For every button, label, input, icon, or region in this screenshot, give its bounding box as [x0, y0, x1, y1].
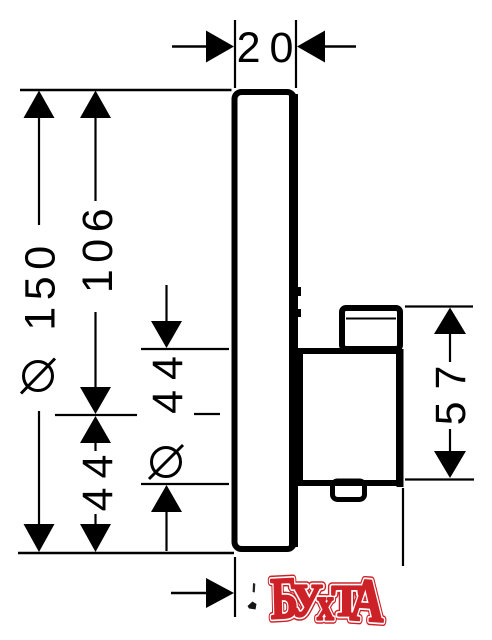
- tick at handle bottom: [141, 483, 229, 485]
- watermark red fill: [270, 565, 386, 636]
- handle centre line dash: [194, 413, 220, 415]
- watermark red outer stroke: [270, 565, 386, 636]
- top reference line y=90: [20, 89, 232, 91]
- dim 44 left line lower segment: [94, 514, 96, 527]
- svg-text:106: 106: [74, 202, 122, 293]
- tick at handle top: [141, 348, 229, 350]
- valve body outline: [300, 351, 399, 483]
- dim 150 line lower segment: [38, 411, 40, 527]
- dim 44 left line upper segment: [94, 441, 96, 451]
- hidden digit fragment upper: [253, 583, 256, 593]
- dim 57 top arrow: [434, 308, 466, 335]
- dim 44 middle diameter circle: [152, 448, 181, 477]
- dim 57 top extension line: [405, 305, 473, 307]
- dim 106 line lower segment: [94, 312, 96, 389]
- dim 44 middle bottom arrow: [151, 485, 182, 512]
- dim 20 right arrow: [297, 31, 325, 63]
- body bottom line over clip: [300, 481, 397, 486]
- dim 106 bottom arrow: [80, 387, 111, 414]
- watermark white halo: [257, 568, 393, 634]
- bottom extension line right (x=403): [402, 488, 404, 566]
- plate right edge notch upper: [296, 287, 301, 296]
- bottom extension line left (x=235): [234, 557, 236, 617]
- dim 20 left arrow: [206, 31, 234, 63]
- dim 44 middle diameter slash: [149, 445, 183, 479]
- bottom dim tail: [171, 592, 208, 594]
- svg-text:20: 20: [237, 24, 303, 72]
- extension line top left (x=235): [234, 20, 236, 88]
- dim 150 bottom arrow: [24, 524, 55, 552]
- dim 57 bottom arrow: [434, 451, 466, 478]
- dim 20 left tail: [172, 45, 208, 47]
- cap right edge extension down: [397, 349, 404, 487]
- handle cap outline: [342, 308, 400, 349]
- svg-text:44: 44: [144, 346, 192, 414]
- bottom reference line y=553: [18, 552, 234, 555]
- dim 44 left top arrow: [80, 416, 111, 443]
- dim 57 bottom extension line: [405, 478, 474, 480]
- dim 150 top arrow: [24, 91, 55, 119]
- dim 44 middle line bottom: [165, 510, 167, 551]
- dim 150 diameter circle: [24, 362, 53, 391]
- dim 106 line upper segment: [94, 116, 96, 201]
- dim 44 middle line top: [165, 285, 167, 324]
- dim 57 line upper segment: [449, 332, 451, 362]
- svg-text:150: 150: [17, 239, 65, 330]
- dim 150 line upper segment: [38, 116, 40, 225]
- plate right edge thickening: [289, 94, 298, 547]
- cover plate outline: [235, 92, 295, 549]
- dim 106 top arrow: [80, 91, 111, 119]
- dim 44 left bottom arrow: [80, 524, 111, 552]
- tick at 106/44 junction: [55, 414, 137, 416]
- retaining clip below body: [333, 481, 365, 500]
- hidden digit fragment lower: [248, 602, 257, 610]
- watermark white inner stroke: [270, 565, 386, 636]
- svg-text:57: 57: [427, 354, 475, 426]
- dim 57 line lower segment: [449, 429, 451, 453]
- bottom dim arrow: [206, 578, 234, 608]
- dim 150 diameter slash: [21, 359, 55, 394]
- dim 20 right tail: [324, 45, 356, 47]
- dim 44 middle top arrow: [151, 321, 182, 348]
- extension line top right (x=296): [295, 20, 297, 88]
- handle cap inner line: [346, 318, 396, 320]
- svg-text:44: 44: [74, 446, 122, 512]
- plate right edge notch lower: [296, 309, 301, 317]
